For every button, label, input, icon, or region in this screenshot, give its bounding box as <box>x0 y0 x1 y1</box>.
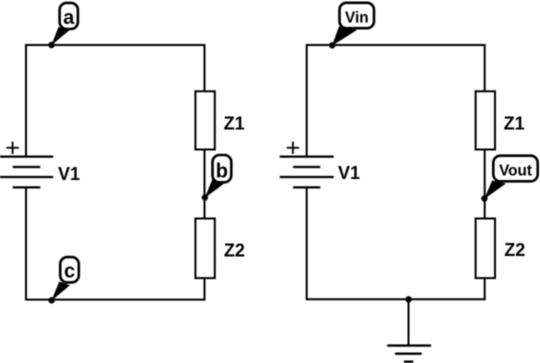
wire left-circuit bottom rail <box>26 299 205 301</box>
flag a pointer tail <box>51 27 70 45</box>
node c junction dot <box>48 297 54 303</box>
impedance Z2 left circuit (body) <box>195 219 214 279</box>
battery V1 right circuit: plate 2 short (-) <box>293 166 320 168</box>
svg-text:a: a <box>63 7 75 29</box>
svg-text:Vin: Vin <box>345 10 369 27</box>
battery V1 right circuit: plate 1 long (+) <box>280 156 334 158</box>
junction dot at ground node <box>405 296 411 302</box>
svg-text:Z2: Z2 <box>504 240 525 260</box>
battery V1 left circuit: plate 2 short (-) <box>13 166 41 168</box>
wire left-circuit left rail upper (node a to battery +) <box>25 44 27 157</box>
svg-text:Z1: Z1 <box>504 113 525 133</box>
flag c pointer tail <box>51 282 70 301</box>
battery V1 right circuit: plate 3 long (+) <box>280 176 334 178</box>
svg-text:Vout: Vout <box>499 162 532 179</box>
node b junction dot <box>202 194 208 200</box>
ground symbol bar 1 <box>387 344 431 346</box>
flag a box <box>60 3 78 29</box>
svg-text:V1: V1 <box>58 164 80 184</box>
impedance Z2 right circuit (body) <box>476 219 495 279</box>
wire right Z2 pin 2 to bottom rail <box>484 278 486 300</box>
wire left-circuit right rail upper (top rail to Z1 pin 1) <box>204 44 206 92</box>
flag c box <box>60 257 79 282</box>
ground symbol bar 3 <box>404 361 413 363</box>
svg-text:V1: V1 <box>338 163 360 183</box>
wire right-circuit right rail upper (top rail to Z1 pin 1) <box>484 44 486 92</box>
node Vout junction dot <box>481 195 487 201</box>
svg-text:Z1: Z1 <box>224 113 245 133</box>
wire Z1 pin 2 to Z2 pin 1 through node b <box>204 149 206 218</box>
ground symbol bar 2 <box>395 353 422 355</box>
impedance Z1 left circuit (body) <box>195 91 214 149</box>
flag b pointer tail <box>205 179 224 198</box>
wire right Z1 pin 2 to Z2 pin 1 through node Vout <box>484 149 486 218</box>
wire left-circuit left rail lower (battery - to bottom rail) <box>25 187 27 300</box>
svg-text:b: b <box>216 160 228 182</box>
wire right-circuit bottom rail <box>307 298 485 300</box>
flag Vout box <box>493 156 537 182</box>
node Vin junction dot <box>329 42 335 48</box>
battery V1 left circuit: plate 1 long (+) <box>0 156 53 158</box>
svg-text:Z2: Z2 <box>224 240 245 260</box>
flag Vout pointer tail <box>484 181 506 200</box>
wire left-circuit top rail <box>26 44 205 46</box>
flag Vin pointer tail <box>332 27 357 46</box>
svg-text:c: c <box>64 261 75 283</box>
node a junction dot <box>48 42 54 48</box>
battery V1 left circuit: plate 3 long (+) <box>0 176 53 178</box>
wire right-circuit left rail upper (node Vin to battery +) <box>306 44 308 157</box>
flag b box <box>213 155 232 182</box>
battery V1 right circuit: plate 4 short (-) <box>293 186 320 188</box>
wire right-circuit left rail lower (battery - to bottom rail) <box>306 187 308 300</box>
battery V1 right: + polarity mark <box>287 142 300 154</box>
wire right-circuit top rail <box>307 44 485 46</box>
flag Vin box <box>340 3 375 28</box>
battery V1 left circuit: plate 4 short (-) <box>13 186 41 188</box>
battery V1 left: + polarity mark <box>6 142 19 154</box>
wire Z2 pin 2 to bottom rail <box>204 278 206 301</box>
impedance Z1 right circuit (body) <box>476 91 495 149</box>
ground stem wire <box>408 299 410 345</box>
